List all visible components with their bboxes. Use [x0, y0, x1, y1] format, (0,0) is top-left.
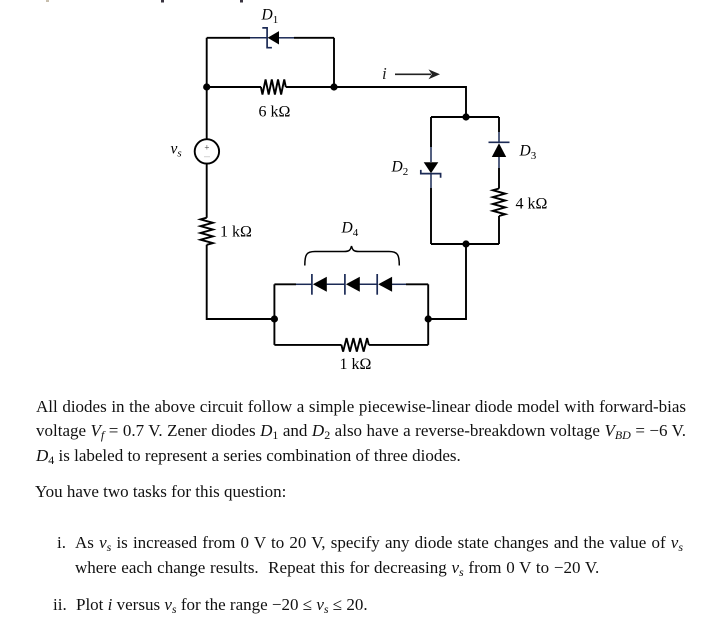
svg-text:4 kΩ: 4 kΩ — [516, 196, 548, 213]
node: right block top junction — [462, 113, 469, 120]
node A (junction dot left) — [203, 83, 210, 90]
wire: bottom block left side — [273, 284, 275, 345]
diode D4c — [377, 274, 392, 295]
wire: 1k down to bottom rail — [207, 245, 275, 319]
wire: D4 branch leads — [274, 283, 296, 285]
voltage source vs — [195, 139, 219, 163]
wire: top-left vertical — [206, 38, 208, 87]
wire: right block left branch lower — [430, 174, 432, 188]
resistor R 6k zigzag — [261, 80, 286, 95]
wire: to right block — [334, 87, 466, 117]
diode D3 — [489, 142, 510, 157]
node: bottom-right junction — [425, 315, 432, 322]
zener diode D1 — [262, 28, 279, 48]
diode D4a — [312, 274, 327, 295]
wire: top horizontal (D1 branch) — [207, 37, 250, 39]
svg-text:1 kΩ: 1 kΩ — [220, 224, 252, 241]
wire: right block down to bottom rail — [428, 244, 466, 319]
resistor R 4k zigzag — [493, 189, 505, 217]
wire: right block right branch upper — [498, 117, 500, 132]
svg-text:1 kΩ: 1 kΩ — [340, 356, 372, 373]
circuit schematic — [0, 0, 722, 382]
svg-text:D3: D3 — [519, 143, 537, 163]
wire: node A down to source — [206, 87, 208, 139]
wire: bottom block right side — [427, 284, 429, 345]
wire: main top node row — [207, 86, 261, 88]
node: bottom-left junction — [271, 315, 278, 322]
svg-text:vs: vs — [171, 141, 182, 160]
wire: right block bottom side — [431, 243, 499, 245]
wire: right block top side — [431, 116, 499, 118]
wire: right block left branch upper — [430, 117, 432, 147]
wire: bottom side leads — [274, 344, 341, 346]
paragraph: tasks intro — [35, 482, 286, 502]
svg-text:D4: D4 — [341, 220, 359, 240]
list item i — [57, 533, 66, 553]
current arrow — [395, 69, 440, 79]
svg-text:+: + — [204, 142, 209, 152]
svg-text:D2: D2 — [391, 159, 409, 179]
wire: source to 1k — [206, 164, 208, 218]
node: right block bottom junction — [462, 240, 469, 247]
svg-text:i: i — [382, 64, 387, 83]
wire: top-right vertical — [333, 38, 335, 87]
resistor R 1k bottom zigzag — [341, 338, 368, 352]
diode D4b — [345, 274, 360, 295]
paragraph: diode model description — [36, 397, 686, 417]
list item ii — [53, 595, 67, 615]
wire: D3 to 4k — [498, 157, 500, 168]
svg-text:D1: D1 — [261, 7, 279, 27]
cropped text remnants at top edge — [46, 0, 49, 2]
svg-text:6 kΩ: 6 kΩ — [259, 104, 291, 121]
zener diode D2 — [421, 162, 441, 178]
resistor R 1k left zigzag — [201, 218, 213, 245]
wire: 4k to bottom side — [498, 216, 500, 244]
node B (junction dot right of 6k) — [330, 83, 337, 90]
brace over D4 — [305, 246, 400, 266]
